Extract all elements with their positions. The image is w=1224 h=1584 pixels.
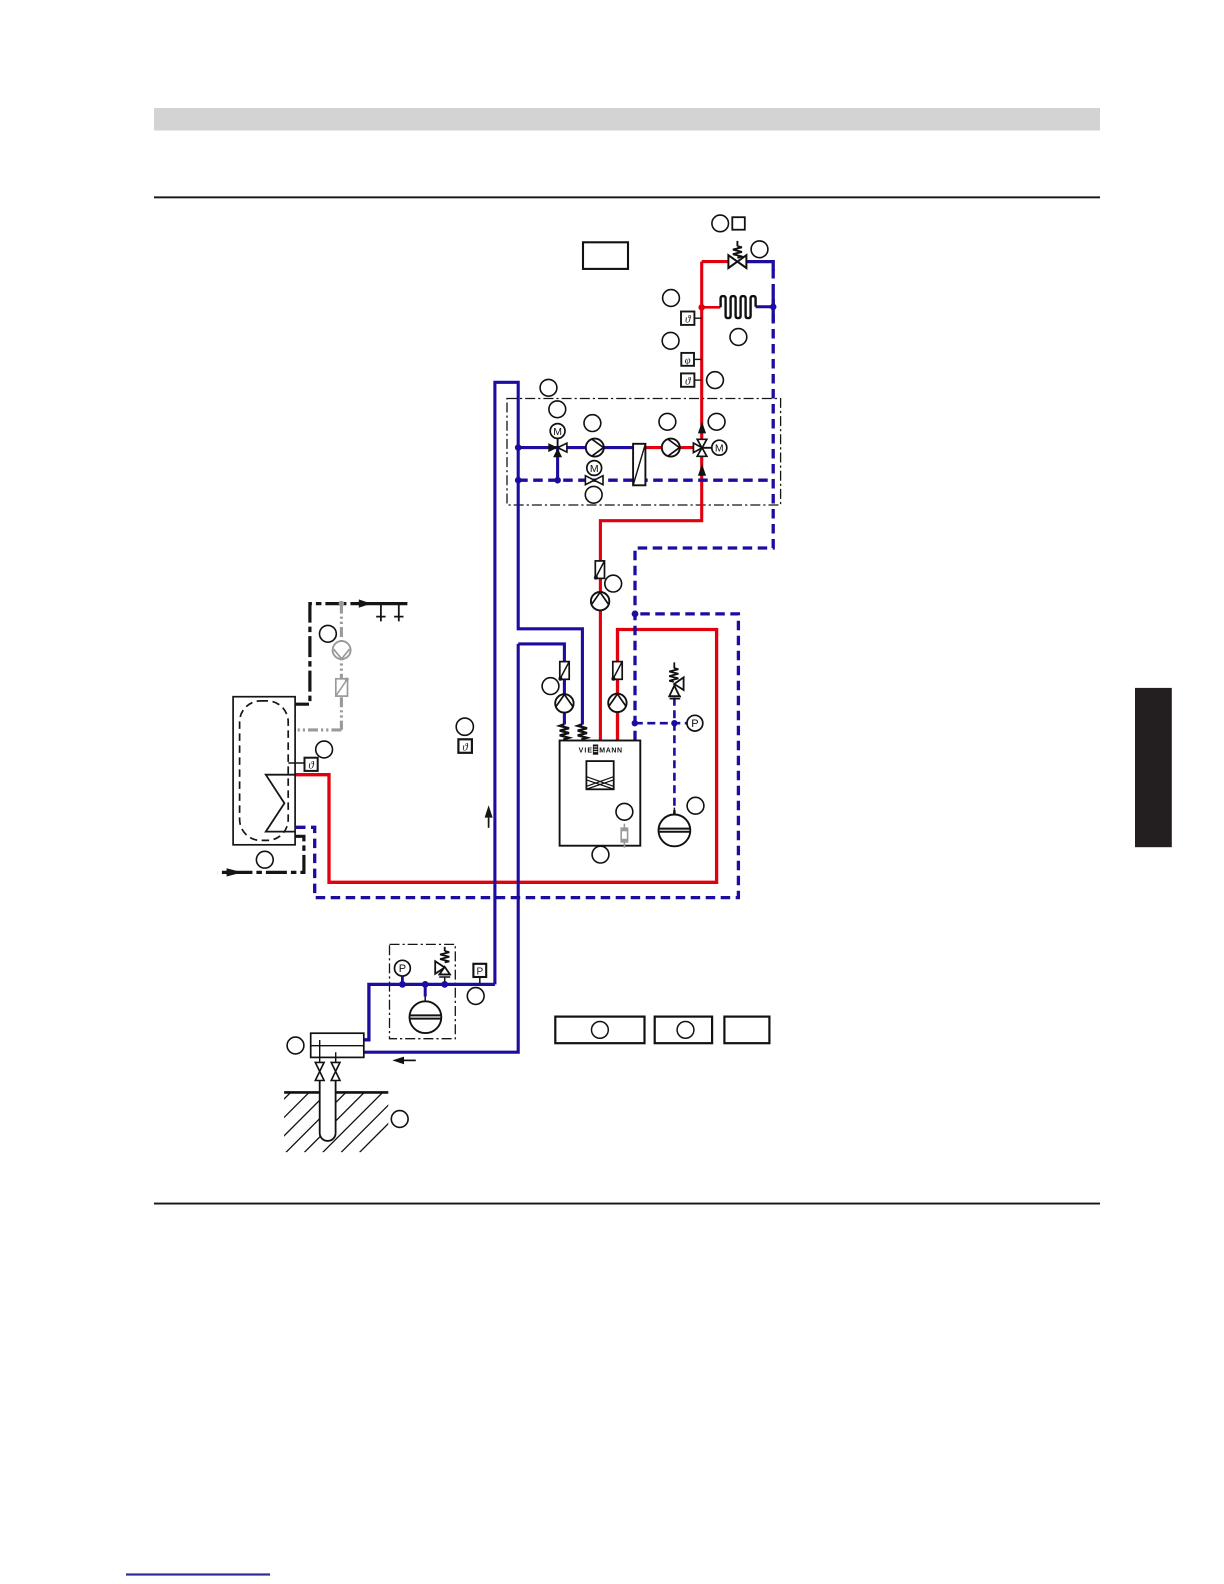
node R: callout inside heat pump bbox=[616, 803, 633, 820]
node: blue tee at radiator return bbox=[770, 304, 777, 311]
sensor: humidity sensor (phi) on riser bbox=[681, 353, 701, 367]
node O: callout above standalone sensor bbox=[456, 718, 473, 735]
footer blue line bbox=[126, 1573, 270, 1575]
svg-text:ϑ: ϑ bbox=[685, 314, 691, 326]
wire: gray circulation pipe to tank bbox=[296, 728, 342, 731]
node G: callout divicon corner bbox=[540, 379, 557, 396]
node N: callout at brine check valve bbox=[542, 678, 559, 695]
node: blue tee return junction bbox=[632, 611, 639, 618]
svg-text:VIE: VIE bbox=[579, 747, 593, 754]
wire: blue dashed long segment at radiator junction bbox=[772, 293, 775, 322]
flow arrow above 4-way valve bbox=[698, 422, 706, 434]
pressure gauge P of heat pump circuit bbox=[687, 715, 703, 731]
wire: brine safety-group main line bbox=[364, 984, 495, 1039]
motor M of butterfly valve bbox=[587, 461, 602, 476]
wire: red stub to overflow valve bbox=[702, 260, 729, 263]
cold water supply symbol (arrow and double T) bbox=[359, 599, 404, 621]
expansion vessel of heat pump circuit bbox=[659, 808, 691, 847]
node F: callout right of theta sensor bbox=[707, 372, 724, 389]
heat pump unit (Viessmann) casing bbox=[560, 741, 641, 846]
node Q: callout above expansion vessel bbox=[687, 797, 704, 814]
svg-text:ϑ: ϑ bbox=[685, 375, 691, 387]
expansion vessel of brine circuit bbox=[410, 984, 442, 1033]
valve: overflow valve (spring loaded) at top bbox=[728, 241, 746, 268]
divicon dash-dot enclosure bbox=[507, 399, 781, 506]
node I: callout above secondary pump bbox=[584, 415, 601, 432]
svg-text:ϑ: ϑ bbox=[462, 741, 468, 753]
check valve on DHW red line bbox=[611, 662, 622, 681]
wire: black DHW outlet pipe at tank bottom bbox=[218, 836, 304, 872]
wire: brine blue riser pair with U-turn bbox=[495, 382, 583, 984]
radiator heating coil symbol bbox=[721, 296, 756, 318]
brine distribution manifold bbox=[311, 1033, 364, 1062]
node: blue tee divicon flow bbox=[515, 444, 522, 451]
node: gray junction on cold water pipe bbox=[339, 601, 345, 607]
node: blue tee divicon return bbox=[515, 477, 522, 484]
node: red tee at radiator bbox=[698, 304, 705, 311]
wire: black cold water pipe at tank top bbox=[288, 604, 352, 705]
svg-text:φ: φ bbox=[685, 355, 691, 366]
wire: blue dashed heating return from overflow valve bbox=[747, 262, 774, 271]
sensor: outdoor/system temperature sensor (theta) bbox=[458, 739, 472, 753]
node: blue tee at brine vessel bbox=[422, 981, 429, 988]
node A: callout top legend bbox=[712, 215, 729, 232]
wire: divicon blue flow line bbox=[518, 446, 633, 449]
check valve on brine inlet bbox=[558, 662, 569, 681]
svg-text:P: P bbox=[476, 966, 483, 977]
pump: DHW loading pump bbox=[608, 694, 626, 712]
wire: blue dashed safety-valve / expansion vessel drop bbox=[673, 698, 676, 815]
shut-off valve left on borehole bbox=[315, 1062, 324, 1080]
pressure switch P (square) of brine circuit bbox=[473, 964, 486, 983]
svg-text:MANN: MANN bbox=[599, 747, 622, 754]
wire: red branch to radiator bbox=[702, 306, 721, 309]
node H: callout above 3-way valve bbox=[549, 401, 566, 418]
node B: callout overflow valve bbox=[751, 241, 768, 258]
pump: divicon primary pump (red side) bbox=[662, 439, 680, 457]
wire: gray circulation pipe vertical bbox=[340, 604, 343, 730]
empty label box top-left bbox=[583, 242, 628, 269]
svg-text:M: M bbox=[590, 463, 599, 475]
black tick at tank wall for circulation pipe bbox=[288, 729, 296, 731]
node J: callout above primary pump bbox=[659, 413, 676, 430]
node P: callout above tank sensor bbox=[316, 741, 333, 758]
header rule bbox=[154, 196, 1100, 198]
sensor: tank temperature sensor (theta) bbox=[305, 758, 318, 772]
node T: callout below tank bbox=[256, 851, 273, 868]
wire: brine blue downcomer to well manifold bbox=[364, 644, 519, 1052]
valve: motorized shut-off (butterfly) on return bbox=[585, 476, 603, 485]
pump: gray DHW circulation pump bbox=[333, 641, 351, 659]
side tab (black page marker) bbox=[1135, 688, 1172, 847]
wire: brine tee into heat pump bbox=[518, 644, 564, 662]
check valve on red riser bbox=[594, 561, 605, 580]
valve: 4-way mixing valve with motor bbox=[693, 439, 711, 456]
wire: brine drop check valve to pump bbox=[563, 679, 566, 696]
wire: heating flow red riser (radiator to heat pump) bbox=[600, 262, 701, 742]
node S: callout below heat pump bbox=[592, 846, 609, 863]
DHW storage tank outer casing bbox=[233, 697, 295, 845]
node: blue tee at brine safety valve bbox=[441, 981, 448, 988]
legend box 2 bbox=[655, 1017, 712, 1044]
wire: blue solid radiator outlet bbox=[756, 305, 774, 308]
flow direction arrow (up) beside brine riser bbox=[485, 805, 493, 828]
node C: callout left of riser bbox=[663, 290, 680, 307]
wire: DHW loading loop red (heat pump to tank coil) bbox=[295, 630, 717, 883]
node K: callout above 4-way valve bbox=[708, 413, 725, 430]
arrow (left) at manifold bbox=[392, 1057, 416, 1065]
wire: blue dashed tank-coil return via bottom run bbox=[296, 614, 738, 898]
svg-text:ϑ: ϑ bbox=[308, 760, 314, 772]
wire: blue dashed branch to pressure gauge group bbox=[635, 722, 688, 725]
node U: callout at circulation pump bbox=[320, 625, 337, 642]
pump: brine circuit pump bbox=[555, 694, 573, 712]
shut-off valve right on borehole bbox=[331, 1062, 340, 1080]
node W: callout right of brine group bbox=[467, 988, 484, 1005]
svg-text:M: M bbox=[715, 443, 724, 455]
arrow on DHW outlet pipe bbox=[227, 868, 243, 876]
svg-text:M: M bbox=[553, 426, 562, 438]
node Y: callout in legend box 1 bbox=[592, 1022, 609, 1039]
node V: callout left of manifold bbox=[287, 1037, 304, 1054]
compressor symbol inside heat pump bbox=[586, 761, 613, 789]
pressure gauge P of brine circuit bbox=[395, 960, 411, 983]
borehole probe (U-tube) bbox=[320, 1080, 336, 1141]
valve: 3-way mixing valve with motor bbox=[548, 439, 567, 458]
check valve: gray on circulation pipe bbox=[336, 678, 349, 697]
flexible connection spring 2 bbox=[578, 724, 587, 740]
fuse / heater element symbol (gray) bbox=[621, 824, 627, 848]
tank temperature sensor connector bbox=[288, 762, 304, 764]
sensor: temperature sensor (theta) above divicon bbox=[681, 373, 702, 387]
heat exchanger (plate HX) bbox=[633, 444, 645, 486]
wire: brine drop pump to spring bbox=[563, 712, 566, 725]
header gray band bbox=[154, 108, 1100, 131]
node M: callout at riser check valve bbox=[605, 575, 622, 592]
wire: blue dashed divicon secondary return bbox=[518, 479, 773, 482]
motor M of 4-way valve bbox=[712, 440, 727, 455]
pump: divicon secondary pump bbox=[586, 439, 604, 457]
wire: black cold water pipe solid end bbox=[352, 602, 407, 605]
legend box 1 bbox=[555, 1017, 644, 1044]
pump: heating circuit pump on red riser bbox=[591, 592, 609, 610]
safety valve of brine circuit bbox=[435, 947, 451, 983]
flow arrow below 4-way valve bbox=[698, 464, 706, 476]
node L: callout below butterfly valve bbox=[585, 486, 602, 503]
ground hatching bbox=[231, 1092, 420, 1152]
legend box 3 bbox=[724, 1017, 769, 1044]
node: blue tee gauge branch bbox=[632, 720, 638, 726]
node D: callout left of phi sensor bbox=[662, 332, 679, 349]
brine safety group dash-dot enclosure bbox=[390, 944, 456, 1038]
node: blue tee at brine gauge bbox=[399, 981, 406, 988]
node X: callout at borehole bbox=[391, 1111, 408, 1128]
ground line bbox=[284, 1091, 388, 1094]
safety valve of heat pump circuit bbox=[669, 662, 684, 698]
node E: callout right of radiator bbox=[730, 329, 747, 346]
node Z: callout in legend box 2 bbox=[677, 1022, 694, 1039]
DHW storage tank inner vessel (dashed capsule) bbox=[240, 701, 289, 841]
wire: 3-way valve drain stub bbox=[556, 448, 559, 480]
wire: red line divicon pump to 4-way valve bbox=[645, 446, 702, 449]
svg-text:P: P bbox=[691, 718, 698, 730]
tank internal heating coil bbox=[266, 775, 295, 832]
sensor: flow temperature sensor (theta) on riser bbox=[681, 312, 702, 326]
motor M of 3-way valve bbox=[550, 424, 565, 439]
svg-text:P: P bbox=[399, 963, 406, 975]
flexible connection spring 1 bbox=[560, 724, 569, 740]
node: blue tee 3-way valve drain bbox=[554, 477, 561, 484]
legend circle and square at top bbox=[732, 217, 745, 230]
VIESMANN logo bbox=[579, 745, 623, 755]
bottom rule bbox=[154, 1203, 1100, 1205]
node: blue tee safety valve drop bbox=[671, 720, 677, 726]
